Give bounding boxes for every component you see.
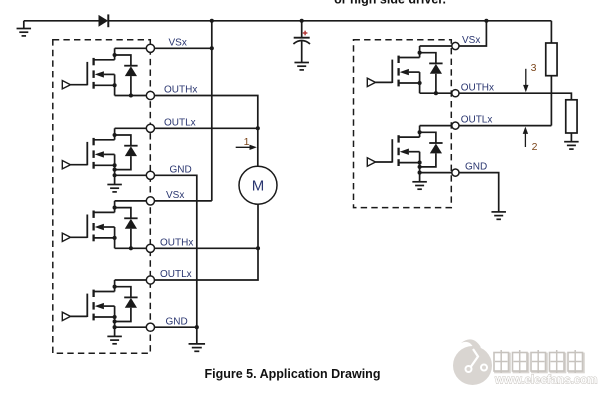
svg-text:1: 1: [244, 136, 250, 148]
wire source row Q3 (high side, channel 2) to pin: [115, 247, 151, 249]
wire body tie Q2 (low side, channel 1): [114, 154, 116, 175]
junction drain/diode node Q4 (low side, channel 2): [113, 285, 117, 289]
junction drain/diode node Q2 (low side, channel 1): [113, 133, 117, 137]
wire resistor R2 to ground: [570, 133, 572, 142]
svg-text:OUTHx: OUTHx: [461, 82, 494, 93]
pin OUTLx channel1: [146, 124, 154, 132]
svg-text:OUTLx: OUTLx: [160, 269, 192, 280]
junction body/source Q6 (low side, right block): [418, 161, 422, 165]
watermark chinese text (approximated): [494, 350, 584, 373]
wire top row Q3 (high side, channel 2) to pin: [115, 200, 151, 202]
wire drain of Q5 (high side, right block) to rail: [419, 46, 421, 58]
wire body tie Q6 (low side, right block): [419, 152, 421, 173]
wire drain of Q1 (high side, channel 1) to rail: [114, 48, 116, 60]
junction phase node 2: [256, 246, 260, 250]
wire VS supply rail left segment: [24, 20, 99, 22]
wire GND2 to ground bus: [150, 326, 196, 328]
wire OUTLx1 to phase node: [150, 127, 257, 129]
watermark logo circle: [453, 339, 492, 385]
wire source row Q4 (low side, channel 2) to pin: [115, 326, 151, 328]
pin VSx right: [452, 42, 459, 49]
pin OUTLx channel2: [146, 276, 154, 284]
wire top row Q6 (low side, right block) to pin: [420, 125, 456, 127]
wire drain of Q2 (low side, channel 1) to rail: [114, 128, 116, 140]
junction drain/diode node Q1 (high side, channel 1): [113, 53, 117, 57]
junction source/gnd wire Q2 (low side, channel 1): [113, 173, 117, 177]
IC package U1 dashed outline (left block): [53, 40, 151, 354]
junction diode/source Q6 (low side, right block): [418, 165, 422, 169]
wire diode anode Q3 (high side, channel 2) to source: [130, 229, 132, 249]
diode D1 (reverse battery protection): [99, 14, 109, 27]
wire diode anode Q2 (low side, channel 1) jog: [115, 156, 131, 170]
junction body/source Q3 (high side, channel 2): [113, 236, 117, 240]
junction diode/source Q5 (high side, right block): [434, 91, 438, 95]
wire OUTLx2 to phase node 2: [150, 248, 258, 280]
junction body/source Q1 (high side, channel 1): [113, 83, 117, 87]
svg-text:OUTLx: OUTLx: [164, 117, 196, 128]
wire source row Q1 (high side, channel 1) to pin: [115, 95, 151, 97]
svg-text:Figure 5. Application Drawing: Figure 5. Application Drawing: [205, 367, 381, 381]
wire phase node 1 to motor: [257, 128, 259, 166]
svg-text:VSx: VSx: [166, 190, 184, 201]
wire rail to capacitor C1: [301, 21, 303, 38]
wire VS vertical feed (left block): [211, 21, 213, 201]
pin GND channel2: [146, 323, 154, 331]
pin VSx channel1: [146, 44, 154, 52]
wire top row Q2 (low side, channel 1) to pin: [115, 127, 151, 129]
gate driver buffer Q5 (high side, right block): [367, 78, 375, 86]
ground at source of Q6 (low side, right block): [412, 173, 427, 190]
svg-text:3: 3: [531, 62, 537, 74]
wire diode anode Q5 (high side, right block) to source: [435, 74, 437, 93]
junction rail/right VS feed: [484, 19, 488, 23]
gate driver buffer Q3 (high side, channel 2): [62, 233, 70, 241]
junction GND bus: [195, 325, 199, 329]
ground at right block GND: [491, 212, 506, 219]
transistor Q6 (low side, right block): [392, 135, 419, 166]
body diode of Q3 (high side, channel 2): [115, 208, 138, 229]
wire capacitor C1 to ground: [301, 41, 303, 63]
junction rail/capacitor: [300, 19, 304, 23]
junction body/source Q2 (low side, channel 1): [113, 163, 117, 167]
pin GND right: [452, 169, 459, 176]
junction phase node 1: [256, 126, 260, 130]
svg-text:GND: GND: [465, 162, 487, 173]
wire source row Q2 (low side, channel 1) to pin: [115, 174, 151, 176]
IC package U2 dashed outline (right block): [354, 40, 452, 208]
wire VS supply rail right segment: [108, 20, 551, 22]
svg-text:OUTHx: OUTHx: [160, 237, 193, 248]
junction drain/diode node Q5 (high side, right block): [418, 51, 422, 55]
wire diode anode Q6 (low side, right block) jog: [420, 153, 436, 167]
svg-text:OUTHx: OUTHx: [164, 85, 197, 96]
wire OUTHx right to R2: [455, 93, 571, 100]
wire drain of Q4 (low side, channel 2) to rail: [114, 280, 116, 292]
ground at left block GND bus: [189, 327, 206, 351]
gate driver buffer Q6 (low side, right block): [367, 158, 375, 166]
wire gate lead Q4 (low side, channel 2): [71, 315, 88, 317]
wire GND1 bus: [150, 175, 196, 327]
body diode of Q2 (low side, channel 1): [115, 135, 138, 156]
wire body tie Q1 (high side, channel 1): [114, 74, 116, 95]
junction diode/source Q3 (high side, channel 2): [129, 246, 133, 250]
wire drain of Q6 (low side, right block) to rail: [419, 126, 421, 138]
body diode of Q4 (low side, channel 2): [115, 287, 138, 308]
transistor Q2 (low side, channel 1): [87, 138, 114, 169]
gate driver buffer Q2 (low side, channel 1): [62, 161, 70, 169]
wire drain of Q3 (high side, channel 2) to rail: [114, 201, 116, 213]
pin OUTLx right: [452, 122, 459, 129]
wire OUTHx2 to phase node 2: [150, 247, 258, 249]
wire body tie Q4 (low side, channel 2): [114, 306, 116, 327]
wire GND right to ground: [455, 173, 498, 212]
wire source row Q6 (low side, right block) to pin: [420, 172, 456, 174]
svg-text:GND: GND: [166, 316, 188, 327]
ground at supply input: [17, 21, 32, 36]
motor M1: [239, 166, 277, 204]
svg-text:OUTLx: OUTLx: [461, 115, 493, 126]
junction source/gnd wire Q6 (low side, right block): [418, 171, 422, 175]
wire gate lead Q1 (high side, channel 1): [71, 84, 88, 86]
wire motor to phase node 2: [257, 204, 259, 248]
svg-text:VSx: VSx: [169, 37, 187, 48]
transistor Q1 (high side, channel 1): [87, 58, 114, 89]
wire top row Q1 (high side, channel 1) to pin: [115, 47, 151, 49]
svg-text:2: 2: [532, 141, 538, 153]
wire gate lead Q2 (low side, channel 1): [71, 164, 88, 166]
current arrow 3 (sourcing current): [523, 69, 528, 92]
svg-text:M: M: [252, 178, 265, 195]
wire body tie Q3 (high side, channel 2): [114, 227, 116, 248]
gate driver buffer Q1 (high side, channel 1): [62, 81, 70, 89]
ground at capacitor C1: [294, 63, 309, 70]
wire gate lead Q5 (high side, right block): [376, 81, 393, 83]
body diode of Q1 (high side, channel 1): [115, 55, 138, 76]
junction body/source Q5 (high side, right block): [418, 81, 422, 85]
pin OUTHx channel1: [146, 91, 154, 99]
wire VSx channel2 to VS vertical: [150, 200, 211, 202]
transistor Q3 (high side, channel 2): [87, 211, 114, 242]
wire resistor R1 to OUTLx node: [550, 76, 552, 126]
svg-text:or high side driver.: or high side driver.: [334, 0, 446, 6]
wire OUTLx right to R1: [455, 125, 551, 127]
wire top row Q4 (low side, channel 2) to pin: [115, 279, 151, 281]
wire VSx channel1 to rail: [150, 47, 211, 49]
wire body tie Q5 (high side, right block): [419, 72, 421, 93]
pin OUTHx right: [452, 90, 459, 97]
junction VSx1/VS vertical: [210, 46, 214, 50]
current arrow 2 (sinking current): [523, 127, 528, 147]
ground at resistor R2: [564, 142, 579, 149]
junction body/source Q4 (low side, channel 2): [113, 315, 117, 319]
junction rail/left VS feed: [210, 19, 214, 23]
svg-text:www.elecfans.com: www.elecfans.com: [494, 375, 597, 387]
resistor R1: [546, 43, 557, 76]
plus sign of capacitor C1: [303, 31, 308, 36]
svg-text:VSx: VSx: [462, 35, 480, 46]
gate driver buffer Q4 (low side, channel 2): [62, 312, 70, 320]
junction drain/diode node Q3 (high side, channel 2): [113, 206, 117, 210]
junction diode/source Q4 (low side, channel 2): [113, 319, 117, 323]
junction diode/source Q2 (low side, channel 1): [113, 168, 117, 172]
pin OUTHx channel2: [146, 244, 154, 252]
wire OUTHx1 to phase node: [150, 96, 257, 129]
body diode of Q6 (low side, right block): [420, 132, 443, 153]
wire rail to resistor R1: [550, 21, 552, 43]
pin VSx channel2: [146, 197, 154, 205]
ground at source of Q2 (low side, channel 1): [107, 175, 122, 192]
wire gate lead Q6 (low side, right block): [376, 161, 393, 163]
ground at source of Q4 (low side, channel 2): [107, 327, 122, 344]
wire VSx right to rail: [455, 21, 486, 46]
body diode of Q5 (high side, right block): [420, 53, 443, 74]
junction drain/diode node Q6 (low side, right block): [418, 130, 422, 134]
wire source row Q5 (high side, right block) to pin: [420, 92, 456, 94]
svg-text:GND: GND: [170, 164, 192, 175]
transistor Q4 (low side, channel 2): [87, 290, 114, 321]
wire diode anode Q1 (high side, channel 1) to source: [130, 76, 132, 95]
junction diode/source Q1 (high side, channel 1): [129, 93, 133, 97]
pin GND channel1: [146, 171, 154, 179]
wire gate lead Q3 (high side, channel 2): [71, 236, 88, 238]
wire diode anode Q4 (low side, channel 2) jog: [115, 308, 131, 322]
transistor Q5 (high side, right block): [392, 56, 419, 87]
wire top row Q5 (high side, right block) to pin: [420, 45, 456, 47]
current arrow 1 (into motor): [236, 145, 257, 150]
junction source/gnd wire Q4 (low side, channel 2): [113, 325, 117, 329]
resistor R2: [566, 100, 577, 133]
capacitor C1 (polarized bulk cap): [293, 38, 310, 44]
